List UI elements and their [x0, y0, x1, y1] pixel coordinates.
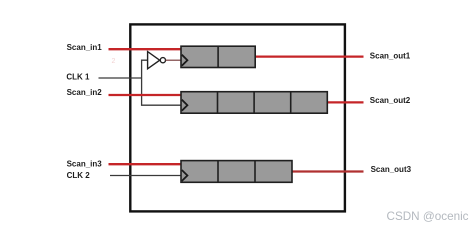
chip boundary [130, 24, 345, 211]
scan chain 2 box (4 cells) [181, 92, 327, 114]
chain1 clock chevron [182, 55, 188, 66]
wire CLK2 [110, 175, 182, 177]
svg-text:2: 2 [112, 58, 116, 65]
svg-text:Scan_out3: Scan_out3 [371, 165, 412, 174]
wire CLK1 vertical branch [142, 60, 181, 105]
svg-text:Scan_in3: Scan_in3 [67, 159, 103, 168]
inverter U1 triangle [148, 52, 160, 69]
scan chain 1 box (2 cells) [181, 46, 255, 67]
chain3 clock chevron [182, 170, 188, 181]
svg-text:Scan_out1: Scan_out1 [370, 52, 411, 61]
wire Scan_out2 (red) [327, 101, 364, 103]
wire CLK1 horizontal from label [99, 77, 142, 79]
wire Scan_out1 (red) [255, 55, 364, 57]
svg-text:CSDN @ocenic: CSDN @ocenic [387, 210, 469, 223]
wire Scan_in1 (red) [109, 48, 182, 50]
chain2 clock chevron [182, 100, 188, 111]
svg-text:CLK 1: CLK 1 [66, 73, 90, 82]
svg-text:CLK 2: CLK 2 [67, 171, 91, 180]
chain1 cell divider [217, 46, 219, 67]
wire Scan_in3 (red) [109, 163, 182, 165]
svg-text:Scan_out2: Scan_out2 [370, 96, 411, 105]
svg-text:Scan_in1: Scan_in1 [67, 43, 103, 52]
inverter U1 bubble [160, 58, 165, 63]
scan chain 3 box (3 cells) [181, 161, 292, 183]
chain2 cell dividers [217, 92, 219, 114]
wire inverter output to chain1 clock (dark red) [166, 59, 181, 61]
wire Scan_out3 (red) [292, 170, 364, 172]
wire Scan_in2 (red) [109, 94, 182, 96]
chain3 cell dividers [217, 161, 219, 183]
svg-text:Scan_in2: Scan_in2 [67, 88, 103, 97]
